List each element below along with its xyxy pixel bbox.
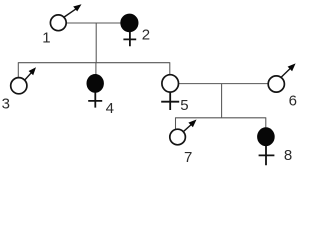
svg-text:1: 1 bbox=[42, 29, 50, 46]
svg-text:3: 3 bbox=[2, 96, 10, 113]
svg-text:8: 8 bbox=[284, 147, 292, 164]
svg-text:7: 7 bbox=[184, 149, 192, 166]
svg-text:4: 4 bbox=[106, 100, 114, 117]
svg-text:2: 2 bbox=[142, 26, 150, 43]
svg-text:5: 5 bbox=[180, 97, 188, 114]
svg-text:6: 6 bbox=[289, 93, 297, 110]
